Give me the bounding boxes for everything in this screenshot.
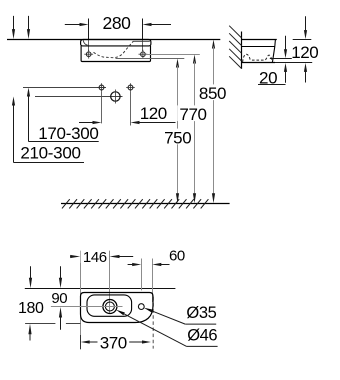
svg-text:170-300: 170-300 bbox=[38, 124, 98, 143]
svg-text:750: 750 bbox=[164, 128, 191, 147]
svg-text:Ø46: Ø46 bbox=[187, 327, 217, 345]
svg-text:120: 120 bbox=[291, 43, 318, 62]
svg-text:60: 60 bbox=[169, 247, 185, 264]
svg-text:120: 120 bbox=[140, 104, 167, 123]
svg-text:370: 370 bbox=[100, 333, 127, 352]
svg-text:146: 146 bbox=[83, 249, 107, 266]
svg-text:90: 90 bbox=[51, 290, 67, 307]
svg-text:770: 770 bbox=[179, 105, 206, 124]
svg-text:210-300: 210-300 bbox=[20, 143, 80, 162]
svg-text:850: 850 bbox=[199, 84, 226, 103]
svg-text:280: 280 bbox=[103, 13, 132, 33]
svg-text:180: 180 bbox=[18, 300, 44, 317]
svg-text:Ø35: Ø35 bbox=[186, 304, 216, 322]
